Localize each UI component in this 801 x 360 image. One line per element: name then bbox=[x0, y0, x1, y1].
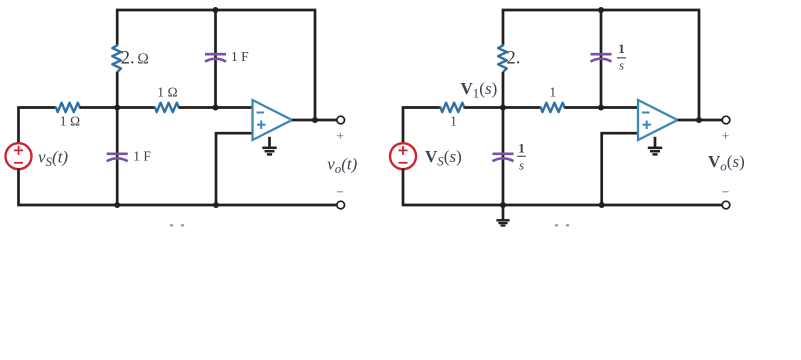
label value C1 (b) bbox=[517, 141, 526, 173]
svg-text:Vo(s): Vo(s) bbox=[708, 152, 745, 174]
svg-text:1 Ω: 1 Ω bbox=[157, 85, 178, 100]
wire: op-amp noninverting input to bottom rail (a) bbox=[216, 133, 253, 205]
svg-text:s: s bbox=[519, 158, 524, 173]
capacitor C2 feedback 1 F (a) bbox=[205, 54, 226, 61]
output terminal top (a) bbox=[337, 116, 345, 124]
output junction dot (a) bbox=[312, 117, 318, 123]
wire: op-amp output to terminal (a) bbox=[292, 119, 337, 122]
junction dot bottom of noninverting branch (b) bbox=[599, 202, 605, 208]
svg-text:1: 1 bbox=[549, 85, 556, 100]
wire: R1 to node A (a) bbox=[80, 106, 155, 109]
output terminal bottom (b) bbox=[722, 201, 730, 209]
svg-text:1: 1 bbox=[450, 114, 457, 129]
wire: bottom rail from source (b) bbox=[403, 169, 722, 206]
wire: shunt resistor through capacitor to bottom rail (a) bbox=[116, 72, 119, 205]
junction dot bottom of noninverting branch (a) bbox=[213, 202, 219, 208]
svg-text:vo(t): vo(t) bbox=[327, 155, 357, 177]
wire: top rail with corner down to shunt resistor and feedback drop (b) bbox=[503, 10, 699, 120]
svg-text:s: s bbox=[619, 58, 624, 73]
svg-text:+: + bbox=[722, 130, 730, 145]
svg-text:2.Ω: 2.Ω bbox=[121, 49, 149, 69]
capacitor C1 shunt 1 F (a) bbox=[107, 154, 128, 161]
label value C2 (b) bbox=[617, 41, 626, 72]
voltage source vS(t) bbox=[6, 143, 32, 169]
wire: node B up through feedback capacitor to top rail (a) bbox=[214, 10, 217, 108]
junction dot on top rail (b) bbox=[598, 7, 604, 13]
capacitor C1 shunt 1/s (b) bbox=[493, 154, 514, 161]
svg-text:2.: 2. bbox=[507, 49, 521, 69]
svg-text:1 F: 1 F bbox=[133, 149, 151, 164]
node A junction dot (b) bbox=[500, 105, 506, 111]
ground on bottom rail (b) bbox=[496, 205, 509, 226]
svg-text:1 Ω: 1 Ω bbox=[60, 114, 81, 129]
junction dot on top rail (a) bbox=[213, 7, 219, 13]
output terminal bottom (a) bbox=[337, 201, 345, 209]
junction dot bottom of shunt branch (b) bbox=[500, 202, 506, 208]
resistor R1 input 1-ohm (b) bbox=[441, 103, 465, 112]
node A junction dot (a) bbox=[114, 105, 120, 111]
resistor 2-ohm shunt bbox=[112, 45, 121, 72]
output junction dot (b) bbox=[696, 117, 702, 123]
wire: R1 to node A (b) bbox=[464, 106, 541, 109]
ground at op-amp noninverting input (a) bbox=[262, 137, 276, 155]
caption (b) fragment bbox=[555, 224, 569, 226]
ground at op-amp noninverting input (b) bbox=[648, 137, 662, 155]
svg-text:1: 1 bbox=[518, 141, 525, 156]
svg-text:1: 1 bbox=[618, 41, 625, 56]
output terminal top (b) bbox=[722, 116, 730, 124]
wire: source top to first resistor (a) bbox=[19, 108, 57, 144]
resistor R3 series 1-ohm (a) bbox=[155, 103, 179, 112]
svg-text:vS(t): vS(t) bbox=[38, 148, 68, 170]
svg-text:VS(s): VS(s) bbox=[425, 147, 462, 169]
svg-text:+: + bbox=[336, 130, 344, 145]
resistor R1 input 1-ohm (a) bbox=[56, 103, 80, 112]
wire: R3 to op-amp inverting input (b) bbox=[565, 106, 638, 109]
resistor R3 series 1-ohm (b) bbox=[541, 103, 565, 112]
svg-text:V1(s): V1(s) bbox=[461, 79, 498, 101]
op-amp U1 (a) bbox=[253, 100, 293, 140]
svg-text:−: − bbox=[336, 185, 344, 200]
caption (a) fragment bbox=[170, 224, 184, 226]
node B junction dot (b) bbox=[598, 105, 604, 111]
wire: source top to first resistor (b) bbox=[403, 108, 441, 144]
capacitor C2 feedback 1/s (b) bbox=[591, 54, 612, 61]
svg-text:1 F: 1 F bbox=[231, 49, 249, 64]
wire: op-amp output to terminal (b) bbox=[678, 119, 723, 122]
wire: bottom rail from source (a) bbox=[19, 169, 337, 206]
svg-text:−: − bbox=[722, 185, 730, 200]
wire: node B up through feedback capacitor to top rail (b) bbox=[600, 10, 603, 108]
wire: shunt resistor through capacitor to bottom rail (b) bbox=[502, 72, 505, 205]
op-amp U2 (b) bbox=[638, 100, 678, 140]
junction dot bottom of shunt branch (a) bbox=[114, 202, 120, 208]
node B junction dot (a) bbox=[213, 105, 219, 111]
resistor 2 shunt (b) bbox=[498, 45, 507, 72]
wire: R3 to op-amp inverting input (a) bbox=[179, 106, 253, 109]
wire: top rail with corner down to shunt resistor and feedback drop (a) bbox=[117, 10, 315, 120]
voltage source VS(s) bbox=[390, 143, 416, 169]
wire: op-amp noninverting input to bottom rail (b) bbox=[602, 133, 638, 205]
